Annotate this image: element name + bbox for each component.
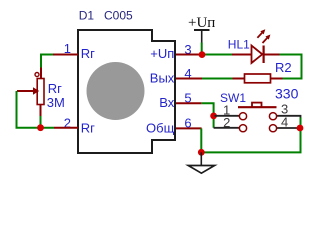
- svg-text:2: 2: [223, 115, 230, 130]
- photo sensor circle inside D1: [87, 62, 145, 120]
- junction node ground: [198, 149, 205, 156]
- ground stem: [200, 152, 202, 165]
- SW1 pin 3 line: [277, 116, 301, 118]
- wire pin1 green segment: [41, 55, 53, 68]
- svg-text:330: 330: [275, 85, 299, 101]
- R2 left stub: [233, 78, 245, 80]
- pin 1 stub: [53, 54, 78, 56]
- SW1 button cap: [252, 103, 262, 107]
- pin 6 stub: [176, 127, 202, 129]
- LED cathode stub: [265, 54, 280, 56]
- svg-text:Rг: Rг: [48, 81, 62, 96]
- wire wiper down and along bottom: [17, 91, 55, 128]
- svg-text:Rг: Rг: [81, 46, 95, 61]
- resistor R2 body: [245, 74, 271, 83]
- junction node +U: [199, 51, 206, 58]
- svg-text:HL1: HL1: [228, 38, 250, 52]
- LED HL1 triangle: [252, 46, 263, 64]
- pin 2 stub: [54, 127, 78, 129]
- wire pin6 down to ground: [200, 128, 202, 152]
- IC D1 body outline: [78, 30, 175, 153]
- resistor Rг top stub: [40, 68, 42, 80]
- R2 right stub: [271, 78, 283, 80]
- ground symbol: [188, 166, 214, 174]
- svg-text:D1: D1: [79, 9, 95, 23]
- wire LED to right edge and down: [280, 55, 302, 79]
- svg-text:Rг: Rг: [81, 121, 95, 136]
- pin 4 stub: [176, 78, 202, 80]
- junction node SW1 left: [210, 113, 217, 120]
- LED arrow 1: [257, 33, 262, 38]
- junction node SW1 right: [297, 125, 304, 132]
- SW1 pin 4 line: [277, 127, 297, 129]
- svg-text:3M: 3M: [47, 95, 65, 110]
- svg-text:C005: C005: [104, 9, 133, 23]
- LED HL1 anode stub: [232, 54, 252, 56]
- resistor Rг bottom stub: [40, 105, 42, 117]
- svg-text:R2: R2: [275, 60, 292, 75]
- wiper arrow of Rг: [17, 90, 34, 92]
- SW1 contact circles: [239, 113, 246, 120]
- LED arrow 2: [263, 38, 268, 43]
- svg-text:Вых: Вых: [150, 71, 175, 86]
- wire pin4 to R2: [202, 78, 233, 80]
- SW1 button bar: [238, 106, 277, 108]
- LED HL1 cathode bar: [263, 46, 265, 64]
- resistor Rг body: [37, 79, 44, 105]
- wire pin5 to SW1: [201, 103, 213, 128]
- junction node at Rг bottom: [37, 124, 44, 131]
- wire SW1 right down to bottom rail: [201, 118, 300, 153]
- pin 5 stub: [176, 102, 201, 104]
- wire from Rг bottom to node: [40, 116, 42, 128]
- trimmer marker circle: [35, 73, 39, 77]
- svg-text:+Uп: +Uп: [188, 15, 215, 31]
- SW1 pin 1 line: [215, 115, 240, 117]
- svg-text:Общ: Общ: [146, 121, 175, 136]
- pin 3 stub: [176, 54, 202, 56]
- svg-text:+Uп: +Uп: [150, 46, 174, 61]
- SW1 pin 2 line: [214, 127, 239, 129]
- wire +U down to node: [201, 43, 203, 55]
- svg-text:4: 4: [281, 115, 288, 130]
- svg-text:Вх: Вх: [159, 95, 175, 110]
- wire node to LED: [202, 54, 232, 56]
